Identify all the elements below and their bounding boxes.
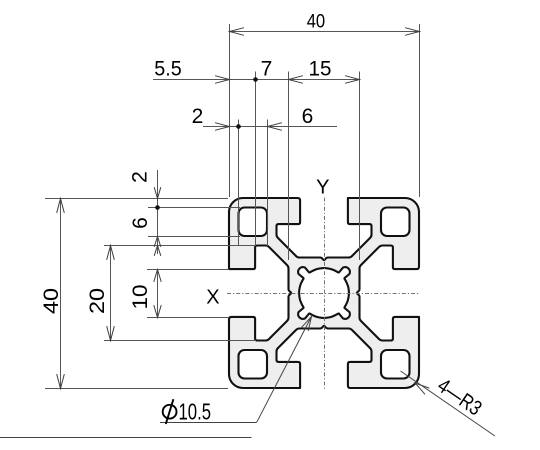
- arrow 5.5 outside pointing right: [216, 76, 230, 83]
- leader 4-R3 arrowhead: [415, 383, 429, 394]
- aluminum extrusion profile cross-section with four T-slots: [229, 198, 419, 388]
- extension line Y40 bottom edge: [45, 388, 228, 390]
- corner screw hole top-left: [239, 208, 268, 237]
- extension line X27.5: [359, 72, 361, 261]
- arrow 40 top right: [406, 28, 420, 35]
- extension line Y15: [147, 269, 229, 271]
- bottom border line: [0, 437, 252, 439]
- arrow 6 left outside pointing up: [154, 237, 160, 247]
- arrow 10 top: [154, 270, 161, 282]
- extension line X5.5: [255, 72, 257, 247]
- extension line Y25: [147, 317, 229, 319]
- dot terminator left Y2: [155, 205, 160, 210]
- svg-text:20: 20: [86, 288, 109, 314]
- arrow at Y10 outside pointing up: [154, 246, 160, 256]
- dimension line 10 left: [157, 270, 159, 318]
- arrow 20 bottom: [107, 327, 114, 341]
- svg-text:6: 6: [129, 217, 152, 229]
- svg-text:2: 2: [192, 105, 204, 128]
- svg-text:40: 40: [40, 288, 63, 314]
- svg-text:6: 6: [302, 105, 314, 128]
- arrow 40 left top: [57, 199, 64, 213]
- svg-text:10.5: 10.5: [179, 399, 212, 425]
- dimension line 2/6 left column: [157, 170, 159, 254]
- extension line Y0 top edge: [45, 198, 228, 200]
- leader 4-R3 line: [401, 371, 495, 436]
- extension line X40 right edge: [419, 24, 421, 197]
- corner screw hole bottom-right: [381, 350, 410, 379]
- arrow 40 top left: [230, 28, 244, 35]
- svg-text:Y: Y: [316, 177, 329, 199]
- dot terminator row3 X2: [236, 124, 241, 129]
- svg-text:10: 10: [129, 285, 152, 310]
- arrow 10 bottom: [154, 306, 161, 318]
- corner screw hole top-right: [381, 208, 410, 237]
- arrow 2 row3 outside pointing right: [216, 123, 230, 130]
- dimension line 20 left: [110, 246, 112, 341]
- leader phi10.5 underline: [160, 422, 257, 424]
- extension line X12.5: [288, 72, 290, 261]
- svg-text:40: 40: [307, 11, 326, 32]
- centerline Y axis vertical: [324, 198, 326, 391]
- extension line Y8: [148, 236, 240, 238]
- extension line X8: [267, 120, 269, 247]
- centerline X axis horizontal: [227, 293, 420, 295]
- extension line Y10: [104, 245, 256, 247]
- svg-text:5.5: 5.5: [154, 58, 182, 81]
- dimension line row3 (2 / 6): [203, 126, 337, 128]
- svg-text:2: 2: [129, 171, 152, 183]
- arrow 2 left outside pointing down: [154, 188, 160, 199]
- dimension line row2 (5.5 / 7 / 15): [153, 79, 360, 81]
- svg-text:7: 7: [261, 58, 273, 81]
- svg-text:X: X: [206, 287, 219, 309]
- extension line X0 left edge: [229, 24, 231, 197]
- dimension line 40 top: [230, 31, 420, 33]
- extension line Y2: [148, 207, 240, 209]
- center bore phi 10.5 with four lobes: [298, 267, 350, 319]
- arrow 15 right: [346, 76, 360, 83]
- dot terminator row2 X5.5: [253, 77, 258, 82]
- arrow 6 row3 outside pointing left: [268, 123, 282, 130]
- svg-text:15: 15: [309, 58, 332, 81]
- leader phi10.5 diagonal: [257, 317, 312, 423]
- corner screw hole bottom-left: [239, 350, 268, 379]
- label phi 10.5: [163, 399, 177, 424]
- leader phi10.5 arrowhead: [302, 317, 312, 331]
- arrow 15 left: [289, 76, 303, 83]
- extension line X2: [238, 120, 240, 247]
- arrow 20 top: [107, 246, 114, 260]
- arrow 40 left bottom: [57, 375, 64, 389]
- dimension line 40 left: [60, 199, 62, 389]
- extension line Y30: [104, 340, 256, 342]
